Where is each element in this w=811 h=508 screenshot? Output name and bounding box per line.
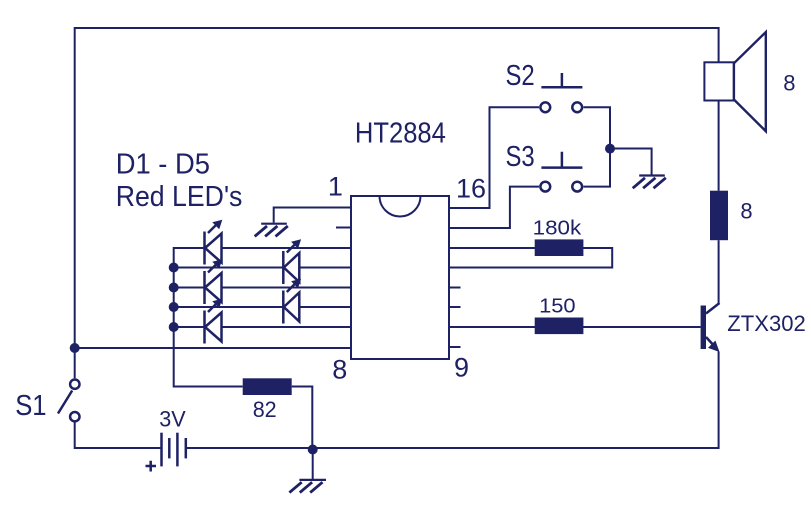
svg-text:D1 - D5: D1 - D5 bbox=[116, 149, 210, 181]
svg-text:8: 8 bbox=[783, 71, 795, 96]
svg-text:8: 8 bbox=[740, 199, 752, 224]
svg-text:8: 8 bbox=[332, 354, 347, 384]
svg-text:S2: S2 bbox=[506, 60, 535, 92]
svg-text:9: 9 bbox=[454, 352, 469, 382]
svg-text:82: 82 bbox=[253, 397, 277, 422]
svg-text:S1: S1 bbox=[15, 390, 46, 422]
svg-text:1: 1 bbox=[328, 172, 343, 202]
svg-text:ZTX302: ZTX302 bbox=[727, 311, 806, 336]
svg-text:16: 16 bbox=[456, 174, 486, 204]
svg-text:150: 150 bbox=[539, 295, 576, 317]
svg-text:Red LED's: Red LED's bbox=[116, 181, 243, 213]
svg-text:180k: 180k bbox=[533, 217, 583, 239]
svg-text:S3: S3 bbox=[506, 141, 535, 173]
svg-text:HT2884: HT2884 bbox=[355, 117, 446, 149]
svg-text:3V: 3V bbox=[159, 407, 186, 432]
